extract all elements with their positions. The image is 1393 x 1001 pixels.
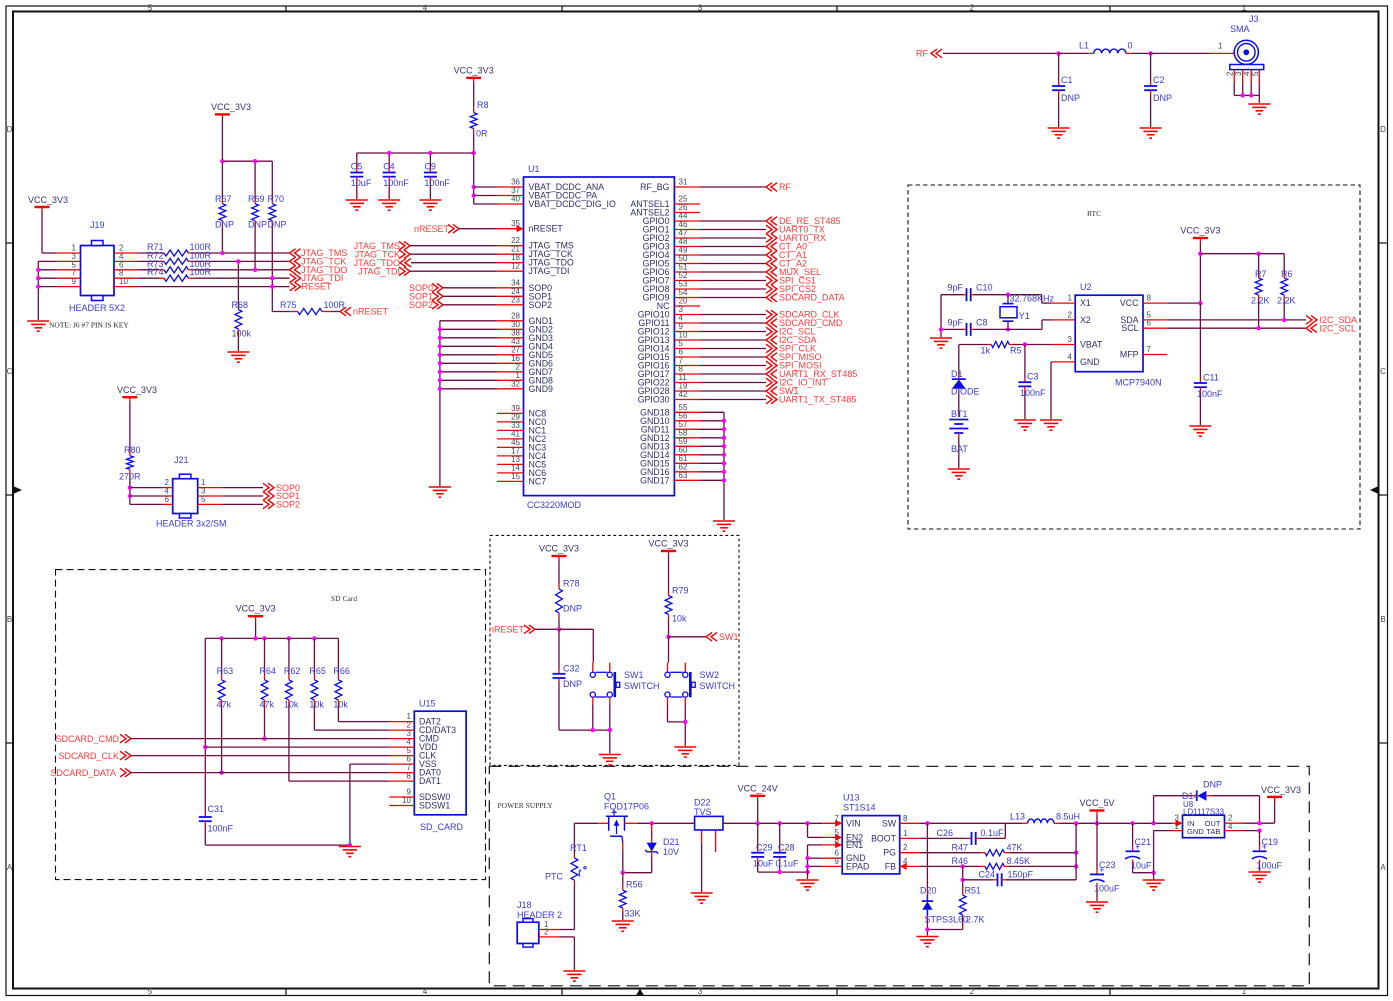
svg-text:32: 32 (511, 379, 520, 388)
ground (U2) (1040, 420, 1062, 430)
pin 21 U1 JTAG_TCK (497, 253, 524, 255)
ground (J18) (563, 971, 585, 981)
net JTAG_TCK port (290, 257, 301, 266)
net I2C_SCL (1167, 327, 1306, 329)
node junction VCC_24V (756, 821, 760, 825)
node junction GND bus (438, 327, 442, 331)
net SPI_CS1 (U1) (700, 280, 766, 282)
pin 1 J21 (198, 487, 223, 489)
svg-text:C: C (7, 367, 13, 376)
resistor R79 10k (668, 556, 670, 592)
svg-text:X2: X2 (1080, 315, 1091, 325)
node junction right GND bus (722, 461, 726, 465)
ground (crystal) (930, 338, 952, 348)
node junction C9 (428, 151, 432, 155)
pin 4 U15 VDD (389, 746, 414, 748)
svg-text:U13: U13 (843, 793, 860, 803)
pin 12 U1 JTAG_TDI (497, 270, 524, 272)
svg-text:1: 1 (1068, 294, 1073, 303)
pin 5 U2 SDA (1143, 319, 1167, 321)
svg-text:270R: 270R (119, 472, 141, 482)
net RESET port (290, 282, 301, 291)
svg-text:X1: X1 (1080, 298, 1091, 308)
net UART1_RX_ST485 (U1) (700, 373, 766, 375)
svg-text:STPS3L60: STPS3L60 (925, 915, 969, 925)
pin 38 U1 GND3 (497, 337, 524, 339)
wire pullup rail (1200, 253, 1284, 255)
capacitor C3 100nF (1024, 345, 1026, 379)
node junction U8 gnd (1151, 871, 1155, 875)
resistor R46 8.45K (920, 865, 980, 867)
svg-text:RT1: RT1 (570, 843, 587, 853)
ground (C1) (1048, 128, 1070, 138)
svg-text:D20: D20 (920, 886, 937, 896)
pin 2 U15 CD/DAT3 (389, 729, 414, 731)
capacitor C32 DNP (558, 629, 560, 669)
pin 35 U1 nRESET (497, 228, 524, 230)
power VCC_3V3 (R67) (215, 113, 230, 115)
svg-text:100k: 100k (232, 329, 252, 339)
pin 1 J18 (539, 929, 559, 931)
svg-text:R75: R75 (280, 300, 297, 310)
wire VDD branch (204, 638, 206, 812)
net DE_RE_ST485 (U1) (700, 220, 766, 222)
power VCC_3V3 (R8) (466, 77, 481, 79)
pin 5 U1 GPIO14 (674, 348, 700, 350)
pin 42 U1 GPIO30 (674, 399, 700, 401)
svg-text:BT1: BT1 (951, 409, 968, 419)
wire rail (723, 822, 822, 824)
power VCC_3V3 (J21) (122, 396, 137, 398)
svg-text:C31: C31 (208, 804, 225, 814)
resistor R65 10k (313, 638, 315, 675)
pin 31 U1 RF_BG (674, 186, 700, 188)
svg-text:EPAD: EPAD (846, 861, 869, 871)
svg-text:10V: 10V (663, 847, 679, 857)
wire left crystal bus (940, 295, 942, 337)
svg-text:FQD17P06: FQD17P06 (604, 802, 649, 812)
net I2C_IO_INT (U1) (700, 382, 766, 384)
resistor R6 2.2K (1283, 254, 1285, 274)
node junction R7 top (1256, 252, 1260, 256)
wire (221, 119, 223, 199)
node junction (608, 728, 612, 732)
svg-text:2: 2 (970, 4, 975, 13)
wire X1 (1041, 295, 1043, 303)
net SPI_CS2 (U1) (700, 288, 766, 290)
resistor R71 100R (138, 252, 159, 254)
node junction D21 (650, 821, 654, 825)
pin 54 U1 GPIO9 (674, 297, 700, 299)
switch SW1 SWITCH (592, 663, 594, 673)
pin 2 U1 GND7 (497, 371, 524, 373)
wire (943, 52, 1059, 54)
svg-text:R78: R78 (563, 579, 580, 589)
svg-text:DNP: DNP (248, 220, 267, 230)
svg-text:nRESET: nRESET (529, 224, 564, 234)
svg-text:SCL: SCL (1121, 323, 1138, 333)
node junction RESET (270, 284, 274, 288)
pin 44 U1 GPIO0 (674, 220, 700, 222)
pin 24 U1 SOP1 (497, 295, 524, 297)
resistor R56 33K (622, 873, 624, 886)
node junction R63 DAT0 (219, 770, 223, 774)
node junction pin4 (128, 494, 132, 498)
pin 49 U1 GPIO4 (674, 254, 700, 256)
svg-text:63: 63 (679, 471, 688, 480)
svg-text:2: 2 (544, 928, 549, 937)
node junction (778, 870, 782, 874)
svg-text:2: 2 (903, 843, 908, 852)
node junction R69 bottom (253, 268, 257, 272)
svg-text:GPIO30: GPIO30 (638, 395, 670, 405)
pin 4 U8 TAB (1225, 830, 1244, 832)
svg-text:10k: 10k (309, 700, 324, 710)
ground (J3) (1248, 104, 1270, 114)
svg-text:R46: R46 (951, 856, 968, 866)
pin 3 U13 EN1 (822, 844, 842, 846)
pin 5 J19 (57, 269, 81, 271)
node junction Y1 bottom (1006, 327, 1010, 331)
diode D21 10V zener (651, 823, 653, 831)
svg-text:47k: 47k (217, 700, 232, 710)
pin 47 U1 GPIO2 (674, 237, 700, 239)
pin 46 U1 GPIO1 (674, 229, 700, 231)
IC U13 ST1S14 (842, 816, 900, 874)
pin 5 U15 CLK (389, 755, 414, 757)
ground (C2) (1140, 128, 1162, 138)
svg-text:R69: R69 (248, 194, 265, 204)
node junction C21 (1130, 821, 1134, 825)
resistor R63 47k (221, 638, 223, 675)
svg-text:5: 5 (201, 495, 206, 504)
node junction VCC_5V (1095, 821, 1099, 825)
svg-text:100R: 100R (190, 267, 212, 277)
node junction R47 (1074, 821, 1078, 825)
pin 3 J19 (57, 260, 81, 262)
svg-text:DNP: DNP (1153, 93, 1172, 103)
resistor R47 47K (920, 852, 980, 854)
node junction right GND bus (722, 478, 726, 482)
svg-text:VBAT: VBAT (1080, 340, 1103, 350)
svg-text:ST1S14: ST1S14 (843, 803, 876, 813)
svg-text:VCC_3V3: VCC_3V3 (1180, 226, 1220, 236)
node junction right GND bus (722, 436, 726, 440)
net JTAG_TDI port (290, 274, 301, 283)
pin 7 U13 VIN (822, 822, 842, 824)
svg-text:100uF: 100uF (1257, 861, 1283, 871)
svg-text:R5: R5 (1010, 346, 1022, 356)
svg-text:10: 10 (119, 277, 128, 286)
node junction VDD (203, 745, 207, 749)
pin 56 U1 GND10 (674, 420, 700, 422)
pin 26 U1 ANTSEL2 (674, 212, 700, 214)
svg-text:R62: R62 (284, 666, 301, 676)
net CT_A0 (U1) (700, 246, 766, 248)
header J18 HEADER 2 (517, 922, 539, 943)
node junction C28 (778, 821, 782, 825)
resistor R72 100R (138, 260, 159, 262)
pin 8 U2 VCC (1143, 302, 1167, 304)
svg-text:4: 4 (423, 987, 428, 996)
svg-text:R70: R70 (268, 194, 285, 204)
pin 36 U1 VBAT_DCDC_ANA (497, 186, 524, 188)
pin 59 U1 GND13 (674, 445, 700, 447)
node junction R70 JTAG_TDI (270, 276, 274, 280)
pin 32 U1 GND9 (497, 388, 524, 390)
resistor R69 DNP (254, 199, 256, 204)
pin 9 J19 (57, 286, 81, 288)
svg-text:B: B (7, 615, 12, 624)
svg-text:R67: R67 (215, 194, 232, 204)
pin 2 U8 OUT (1225, 822, 1244, 824)
svg-text:nRESET: nRESET (489, 625, 525, 635)
thermistor RT1 PTC (573, 880, 575, 885)
svg-text:C5: C5 (351, 162, 363, 172)
svg-text:9: 9 (835, 857, 840, 866)
wire gate net (623, 872, 652, 874)
wire U1 right GND bus (700, 411, 724, 413)
svg-text:33K: 33K (625, 909, 641, 919)
wire (1151, 52, 1209, 54)
svg-text:R68: R68 (232, 300, 249, 310)
pin 9 U1 GPIO12 (674, 331, 700, 333)
power VCC_3V3 (SW2) (661, 550, 676, 552)
svg-text:C24: C24 (978, 870, 995, 880)
svg-text:D: D (1380, 125, 1386, 134)
svg-text:SDCARD_CMD: SDCARD_CMD (55, 734, 119, 744)
pin 29 U1 NC0 (497, 421, 524, 423)
svg-text:C10: C10 (976, 283, 993, 293)
svg-text:TVS: TVS (694, 807, 712, 817)
svg-text:6: 6 (165, 495, 170, 504)
svg-text:2.2K: 2.2K (1251, 296, 1270, 306)
net UART0_RX (U1) (700, 237, 766, 239)
node junction GND bus (438, 370, 442, 374)
svg-text:RTC: RTC (1087, 209, 1101, 218)
node junction EPAD (805, 864, 809, 868)
node junction R6 SDA (1282, 318, 1286, 322)
resistor R7 2.2K (1258, 254, 1260, 274)
pin 55 U1 GND18 (674, 411, 700, 413)
svg-text:100R: 100R (324, 300, 346, 310)
wire (1199, 243, 1201, 304)
pin 53 U1 GPIO8 (674, 288, 700, 290)
svg-text:VCC_24V: VCC_24V (738, 783, 778, 793)
svg-text:VCC_3V3: VCC_3V3 (539, 544, 579, 554)
capacitor C4 100nF (388, 153, 390, 168)
ground (C3) (1014, 420, 1036, 430)
resistor R78 DNP (558, 561, 560, 585)
node junction C1 (1056, 51, 1060, 55)
wire U8 GND (1154, 830, 1173, 832)
capacitor C24 150pF (963, 879, 994, 881)
svg-text:5: 5 (1251, 71, 1260, 76)
svg-text:VCC_3V3: VCC_3V3 (211, 102, 251, 112)
wire to SW2 (668, 637, 670, 663)
ground (C11) (1189, 426, 1211, 436)
node junction rail (287, 636, 291, 640)
node junction C2 (1148, 51, 1152, 55)
capacitor C23 100uF (1096, 823, 1098, 870)
node junction (1241, 93, 1245, 97)
capacitor C26 0.1uF (920, 837, 967, 839)
node junction R56 (621, 870, 625, 874)
svg-text:C: C (1380, 367, 1386, 376)
ground (C9) (419, 200, 441, 210)
pin 7 U2 MFP (1143, 354, 1167, 356)
wire cap rail (357, 152, 474, 154)
node junction D20 gnd (925, 927, 929, 931)
svg-text:SWITCH: SWITCH (700, 681, 736, 691)
net CT_A2 (U1) (700, 263, 766, 265)
pin 8 U1 GPIO17 (674, 373, 700, 375)
wire RESET row (138, 286, 290, 288)
node junction GND bus (438, 387, 442, 391)
svg-text:SWITCH: SWITCH (624, 681, 660, 691)
svg-text:MCP7940N: MCP7940N (1115, 378, 1162, 388)
pin 45 U1 NC3 (497, 446, 524, 448)
svg-text:SW1: SW1 (719, 632, 739, 642)
node junction pin2 (128, 485, 132, 489)
svg-text:VCC_5V: VCC_5V (1079, 798, 1114, 808)
svg-text:R66: R66 (333, 666, 350, 676)
wire left bus to ground (38, 260, 56, 262)
svg-text:8: 8 (1147, 294, 1152, 303)
pin 43 U1 GND4 (497, 345, 524, 347)
pin 1 U2 X1 (1051, 302, 1075, 304)
pin 40 U1 VBAT_DCDC_DIG_IO (497, 203, 524, 205)
wire EN1/GND/EPAD tie (808, 844, 823, 846)
wire ground rail (205, 844, 350, 846)
pin 9 U13 EPAD (822, 865, 842, 867)
diode D14 DNP (1153, 796, 1155, 824)
pin 23 U1 SOP2 (497, 304, 524, 306)
svg-text:3: 3 (1068, 335, 1073, 344)
node junction D20 (925, 821, 929, 825)
svg-text:R79: R79 (672, 586, 689, 596)
ground (J19) (27, 321, 49, 331)
node junction pin9 (36, 284, 40, 288)
pin 1 U15 DAT2 (389, 721, 414, 723)
pin 1 U1 GND8 (497, 379, 524, 381)
capacitor C28 0.1uF (779, 823, 781, 848)
capacitor C8 9pF (941, 328, 963, 330)
svg-text:10k: 10k (672, 614, 687, 624)
pin 3 J3 (1242, 70, 1244, 83)
node junction (1249, 93, 1253, 97)
svg-text:BAT: BAT (951, 444, 968, 454)
svg-text:DNP: DNP (563, 679, 582, 689)
pin 7 U15 DAT0 (389, 772, 414, 774)
inductor L13 8.5uH (1022, 822, 1028, 824)
crystal Y1 32.768KHz (1007, 295, 1009, 304)
pin 48 U1 GPIO3 (674, 246, 700, 248)
wire (130, 487, 164, 489)
svg-text:Q1: Q1 (604, 792, 616, 802)
inductor L1 0 (1059, 52, 1088, 54)
svg-text:100nF: 100nF (1020, 388, 1046, 398)
wire U8 OUT (1243, 822, 1275, 824)
node junction nRESET (557, 627, 561, 631)
wire J3 ground bus (1234, 94, 1259, 96)
svg-text:PTC: PTC (545, 872, 564, 882)
svg-text:R74: R74 (147, 267, 164, 277)
node junction GND (805, 856, 809, 860)
svg-text:POWER SUPPLY: POWER SUPPLY (498, 801, 554, 810)
node junction pin7 (36, 276, 40, 280)
svg-text:SDCARD_DATA: SDCARD_DATA (50, 768, 116, 778)
svg-text:1: 1 (1242, 4, 1247, 13)
net SOP0 port (J21) (222, 487, 263, 489)
node junction U8 IN (1151, 821, 1155, 825)
ground (SW1) (599, 755, 621, 765)
capacitor C5 10uF (356, 153, 358, 168)
pin 3 J21 (198, 495, 223, 497)
svg-text:2: 2 (1068, 310, 1073, 319)
svg-text:HEADER 2: HEADER 2 (517, 910, 562, 920)
svg-text:BOOT: BOOT (871, 833, 897, 843)
Switches section box (490, 535, 739, 765)
pin 34 U1 SOP0 (497, 287, 524, 289)
svg-text:Y1: Y1 (1019, 311, 1030, 321)
pin 2 U13 PG (900, 852, 920, 854)
svg-text:6: 6 (1147, 319, 1152, 328)
svg-text:R47: R47 (951, 842, 968, 852)
svg-text:J19: J19 (90, 220, 105, 230)
svg-text:1: 1 (1242, 987, 1247, 996)
resistor R5 1k (959, 344, 987, 346)
pin 22 U1 JTAG_TMS (497, 245, 524, 247)
pin 33 U1 NC1 (497, 429, 524, 431)
IC U15 SD_CARD (414, 711, 466, 815)
svg-text:LD1117S33: LD1117S33 (1183, 808, 1225, 817)
pin 8 J19 (114, 277, 138, 279)
power VCC_3V3 (U8) (1274, 797, 1276, 823)
pin 6 J21 (164, 503, 173, 505)
capacitor C10 9pF (941, 294, 963, 296)
svg-text:3: 3 (698, 987, 703, 996)
pin 5 J3 (1258, 70, 1260, 83)
node junction EN2 (805, 821, 809, 825)
wire (255, 621, 257, 639)
svg-text:0: 0 (1128, 41, 1133, 51)
wire pin2 (559, 936, 574, 938)
svg-text:9: 9 (72, 277, 77, 286)
wire DAT1 (289, 780, 389, 782)
pin 16 U1 GND6 (497, 362, 524, 364)
capacitor C9 100nF (429, 153, 431, 168)
svg-text:L1: L1 (1079, 41, 1089, 51)
svg-text:31: 31 (679, 178, 688, 187)
IC U2 MCP7940N (1075, 295, 1143, 372)
ground (U1 right) (713, 521, 735, 531)
svg-text:VCC_3V3: VCC_3V3 (1261, 785, 1301, 795)
pin 4 J3 (1250, 70, 1252, 83)
node junction R67 top (220, 159, 224, 163)
resistor R70 DNP (271, 199, 273, 204)
pin 51 U1 GPIO6 (674, 271, 700, 273)
ground (R68) (227, 352, 249, 362)
pin 1 J3 (1209, 52, 1234, 54)
capacitor C2 DNP (1150, 53, 1152, 81)
svg-text:SW1: SW1 (624, 670, 644, 680)
svg-text:B: B (1380, 615, 1385, 624)
node junction (591, 728, 595, 732)
svg-text:SD Card: SD Card (331, 594, 357, 603)
svg-text:1: 1 (1175, 822, 1180, 831)
pin 10 J19 (114, 286, 138, 288)
